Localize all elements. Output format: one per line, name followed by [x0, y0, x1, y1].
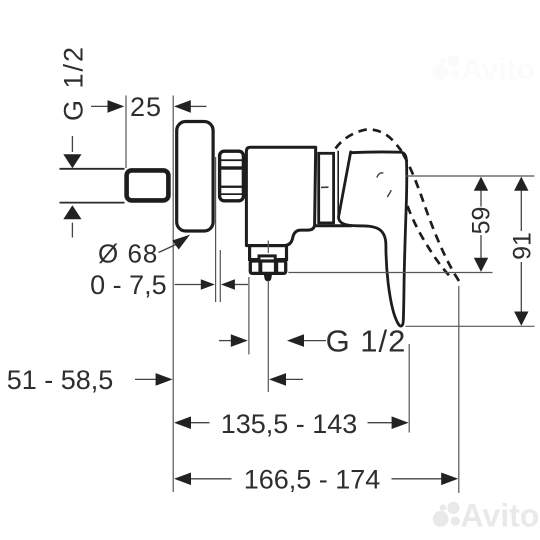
shelf under cartridge: [316, 224, 352, 227]
watermark bottom-right Avito logo: [433, 502, 460, 527]
dimension 25: [91, 105, 207, 107]
dimension 135,5 - 143: [191, 422, 392, 424]
centerline outlet: [267, 241, 269, 254]
reference line bottom y326.3: [406, 325, 535, 327]
arrow 25 left: [108, 100, 125, 113]
sleeve line x215.6: [215, 157, 217, 302]
cartridge ring: [319, 153, 334, 223]
tick mark cartridge center: [321, 186, 329, 188]
arrow 51-58,5 left: [156, 373, 173, 386]
mixer body: [246, 147, 315, 245]
inner detail mark 1: [377, 173, 384, 178]
arrow up G1/2 pipe bottom: [63, 205, 81, 219]
dimension line G1/2 vertical: [71, 136, 73, 238]
arrow 0-7,5 left: [201, 279, 215, 290]
leader Ø68: [159, 245, 177, 253]
wire pipe top line: [60, 168, 125, 170]
wire pipe bottom line: [60, 202, 125, 204]
arrow 51-58,5 right: [269, 373, 286, 386]
svg-text:0 - 7,5: 0 - 7,5: [90, 270, 167, 300]
dimension 59: [480, 190, 482, 259]
watermark top-right Avito logo: [433, 55, 460, 80]
dimension 0-7,5 lines: [175, 284, 249, 286]
arrow 0-7,5 right: [221, 279, 235, 290]
outlet nipple tip: [264, 275, 272, 281]
svg-text:51 - 58,5: 51 - 58,5: [7, 365, 114, 395]
extension line x126: [125, 96, 127, 169]
ribbed connection nut: [220, 151, 244, 201]
arrow 135,5-143 left: [174, 416, 191, 429]
dashed handle upper edge: [403, 154, 460, 283]
arrow down G1/2 pipe top: [63, 154, 81, 168]
outlet stub: [250, 246, 287, 260]
svg-text:166,5 - 174: 166,5 - 174: [244, 465, 381, 495]
reference line top y176: [406, 175, 535, 177]
hex nut: [250, 261, 285, 273]
arrow 91 top: [514, 177, 528, 191]
arrowhead O68 leader: [172, 235, 190, 250]
arrow 166,5-174 left: [174, 473, 191, 486]
svg-text:91: 91: [509, 232, 537, 260]
hub gap line: [337, 151, 339, 218]
svg-text:135,5 - 143: 135,5 - 143: [221, 409, 358, 439]
threaded nipple G1/2: [127, 170, 169, 200]
svg-text:G 1/2: G 1/2: [326, 324, 407, 359]
arrow G1/2 right: [287, 334, 304, 347]
svg-text:59: 59: [467, 207, 495, 235]
svg-text:Avito: Avito: [461, 53, 535, 86]
extension line x173 (long): [172, 96, 174, 493]
arrow 135,5-143 right: [392, 416, 409, 429]
dimension G 1/2 bottom: [248, 277, 250, 355]
extension line x220.3: [219, 250, 221, 302]
arrow 166,5-174 right: [441, 473, 458, 486]
arrow G1/2 left: [231, 334, 248, 347]
handle lever: [339, 152, 407, 326]
dashed handle position arc: [336, 130, 402, 151]
svg-text:25: 25: [130, 92, 162, 122]
svg-text:Ø 68: Ø 68: [98, 239, 158, 269]
extension line x409: [408, 344, 410, 433]
arrow 59 bottom: [474, 258, 488, 272]
reference line mid y272.5: [288, 272, 492, 274]
svg-text:Avito: Avito: [461, 498, 540, 534]
arrow 25 right: [174, 100, 191, 113]
outlet collar: [259, 256, 275, 262]
inner detail mark 2: [387, 190, 391, 197]
arrow 91 bottom: [514, 312, 528, 326]
escutcheon plate: [177, 122, 213, 232]
extension line x459: [458, 286, 460, 493]
dimension 166,5 - 174: [191, 478, 442, 480]
dimension 91: [520, 190, 522, 313]
arrow 59 top: [474, 177, 488, 191]
dashed handle lower edge: [408, 206, 452, 278]
svg-text:G 1/2: G 1/2: [59, 45, 89, 121]
